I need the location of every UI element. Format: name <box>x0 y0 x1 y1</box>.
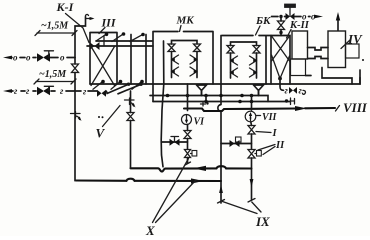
valve (bowtie) on wash pipe right section <box>97 90 106 97</box>
node dot C2 at x206 <box>204 100 208 104</box>
label IV with leader <box>341 32 363 49</box>
node: left inlet arrow pipe "г" (wash water) <box>3 89 107 93</box>
valve (hourglass) on x130.5 <box>127 113 134 121</box>
wire: К-II bottom outlet to г line <box>280 79 284 91</box>
valve (gate with T-handle) on inlet pipe о <box>37 51 54 62</box>
arrow end of top line <box>314 15 323 19</box>
apparatus БК outline <box>222 36 271 85</box>
node dot riser top 1 <box>127 83 130 86</box>
node dot riser top 2 <box>139 83 142 86</box>
wire: blowdown line hook end <box>303 90 306 94</box>
svg-text:VIII: VIII <box>343 100 368 115</box>
svg-text:III: III <box>101 16 117 30</box>
pump VI (circle with down arrow) <box>182 115 192 125</box>
wire: funnel stem БК to C1 <box>258 90 260 96</box>
node dot C1 at x221 <box>219 94 223 98</box>
valve (hourglass) МК right column <box>194 44 201 52</box>
wire: funnel stem МК to C1 <box>201 90 203 96</box>
sampling tap at C2 right end <box>285 98 295 105</box>
svg-text:IV: IV <box>347 32 363 47</box>
wire: vertical x75 to L2 <box>75 91 76 181</box>
svg-text:X: X <box>145 223 155 236</box>
filter vessel K-I (box with cross) <box>90 33 117 86</box>
valve (hourglass) БК left column <box>227 46 234 54</box>
valve (bowtie) on filter header <box>90 42 100 50</box>
wire: x251.5 between I and II <box>251 134 253 149</box>
wire: VIII line <box>184 108 335 111</box>
node dot К-II vertex <box>278 77 282 81</box>
valve (hourglass) on riser between pipes <box>72 64 79 73</box>
riser x131 <box>130 35 132 85</box>
label X with leaders <box>145 159 196 239</box>
wire: drain line L2 with right arrow <box>76 178 221 183</box>
tap on x130.5 (V) <box>125 98 136 108</box>
wire: vertical drain x187.5 upper <box>187 84 189 111</box>
svg-text:VI: VI <box>194 117 206 128</box>
air-relief switch with node dot (3) <box>130 33 145 42</box>
label К-II with leader <box>287 20 310 38</box>
wire: БК left column tube <box>230 53 232 78</box>
valve (hourglass) МК left column <box>168 44 175 52</box>
wire: БК inner bracket <box>231 42 257 46</box>
label IX with leaders <box>223 202 271 230</box>
drain switch with node dot (2) <box>111 80 122 90</box>
svg-text:БК: БК <box>255 15 271 27</box>
node dot C2 at x240 <box>238 100 242 104</box>
tap on x75 (V) <box>71 112 82 122</box>
wire: x187.5 between VI and valve <box>187 125 189 131</box>
label I with leader <box>256 128 278 139</box>
label II with two leaders <box>258 140 285 155</box>
svg-text:о: о <box>60 53 65 63</box>
node dot C1 at x206 <box>204 94 208 98</box>
air-relief switch with node dot (2) <box>112 32 125 41</box>
dimension line upper <box>35 31 77 36</box>
svg-text:IX: IX <box>255 214 270 229</box>
node dot above К-II <box>279 31 282 34</box>
wire: wash diagonal riser 1 <box>107 84 129 93</box>
svg-text:К-I: К-I <box>56 0 75 14</box>
wire: stub below drain valve with end tick <box>187 158 189 164</box>
spray nozzle БК right lower <box>250 68 258 77</box>
wire: filter header pipe <box>87 45 153 47</box>
wire: МК inner bracket <box>172 41 198 45</box>
svg-text:о: о <box>13 53 18 63</box>
svg-text:о: о <box>26 53 31 63</box>
label VII with dash leader <box>257 112 278 123</box>
valve (hourglass) БК right column <box>253 46 260 54</box>
valve with actuator (bowtie+box) on branch <box>230 137 242 147</box>
spray nozzle МК right lower <box>190 67 198 76</box>
wire: x251.5 below pump <box>250 122 253 126</box>
spray nozzle МК left lower <box>171 67 179 76</box>
valve (bowtie) on blowdown line <box>289 87 297 94</box>
label V with two leaders <box>96 106 121 141</box>
svg-text:V: V <box>96 126 106 141</box>
svg-text:МК: МК <box>176 15 195 27</box>
funnel drain under БК <box>254 85 264 96</box>
machine IV pedestal step <box>322 68 360 85</box>
wire: x187.5 between valves <box>187 139 189 150</box>
pump VII (circle with up arrow) <box>245 111 256 122</box>
apparatus МК (mechanical filter-column block) outline <box>153 32 213 102</box>
valve I (hourglass) <box>248 126 255 135</box>
wire: upper distribution header <box>96 40 152 42</box>
funnel drain under МК <box>197 85 207 96</box>
air-relief switch with node dot (1) <box>96 33 108 42</box>
riser x146 <box>145 35 147 85</box>
wire: drain line L1 with left arrow <box>131 166 252 172</box>
steam exhaust arrow above IV <box>336 12 340 31</box>
machine IV right small rectangle <box>346 44 360 58</box>
spray nozzle БК left upper <box>230 56 238 65</box>
wire: БК left edge long drain line <box>218 36 221 204</box>
wire: drain stub below II with arrow and end tick <box>248 158 255 202</box>
label МК with leader <box>176 15 195 32</box>
wire: branch to tee valve <box>161 141 187 143</box>
svg-text:~1,5М: ~1,5М <box>39 69 67 80</box>
machine IV left body rectangle <box>292 31 308 59</box>
svg-text:~1,5М: ~1,5М <box>41 21 69 32</box>
node dot C1 at x251.5 <box>250 94 254 98</box>
machine IV right body rectangle <box>328 31 346 68</box>
dash-dot speck 2 <box>102 116 104 118</box>
node: left inlet arrow pipe "o" (clarified water inlet) <box>3 56 75 60</box>
valve (hourglass) above К-II <box>278 21 285 30</box>
valve with actuator box (drain X1) <box>185 150 197 158</box>
speck dot right of IV <box>362 59 364 61</box>
wire: vertical x160.5 (МК drain) <box>161 41 164 167</box>
spray nozzle МК right upper <box>190 55 198 64</box>
machine IV coupling blocks <box>308 48 329 59</box>
wire: main bottom collector <box>90 78 360 85</box>
valve (bowtie with T-handle) on branch <box>170 137 180 146</box>
wire: collector C1 <box>150 96 268 102</box>
wire: МК left column tube <box>171 52 173 78</box>
spray nozzle БК left lower <box>230 68 238 77</box>
wire: riser from inlet pipe to air vent <box>75 17 86 58</box>
sampling tap at riser top <box>85 14 94 20</box>
wire: БК right column tube <box>256 53 258 78</box>
wire: riser from pipe o down to pipe г <box>74 58 76 92</box>
wire: pump VII suction from collectors <box>251 96 253 111</box>
label III with leader <box>99 16 117 34</box>
wire: collector C2 <box>153 101 290 103</box>
dimension line lower <box>34 79 76 84</box>
wire: wash diagonal riser 2 <box>118 84 141 94</box>
valve (gate with T-handle) on wash pipe <box>37 86 54 95</box>
wire: К-II top line with steam-out <box>272 16 318 18</box>
riser x104 <box>103 36 105 47</box>
label К-I with leader to filter inlet valve <box>56 0 90 43</box>
svg-text:II: II <box>275 140 285 151</box>
tick before VIII label <box>336 106 340 112</box>
svg-text:VII: VII <box>262 112 278 123</box>
wire: link C1-C2 at x206 <box>205 96 207 102</box>
svg-text:о: о <box>302 12 307 22</box>
svg-text:К-II: К-II <box>289 20 310 31</box>
node dot at C2 x251.5 <box>250 100 254 104</box>
drain switch with node dot (1) <box>93 80 105 90</box>
wire: drain stub x221 with up arrow and end tick <box>218 185 225 204</box>
machine IV lower small rectangle right <box>306 75 312 77</box>
wire: К-II inlet stub <box>280 17 282 36</box>
label БК with leader <box>255 15 271 35</box>
drain switch with node dot (3) <box>132 80 144 90</box>
spray nozzle МК left upper <box>171 55 179 64</box>
dash-dot speck 1 <box>98 116 100 118</box>
machine IV lower-left small rectangle <box>291 59 306 76</box>
node dot on К-II top line <box>279 15 282 18</box>
spray nozzle БК right upper <box>250 56 258 65</box>
valve II (hourglass with actuator box) <box>248 150 261 159</box>
node dot C1 at x167.5 <box>166 94 170 98</box>
node dot C1 at x242 <box>240 94 244 98</box>
sampling tap below C2 <box>201 102 206 107</box>
node dot C1 at x187.5 <box>186 94 190 98</box>
valve with handwheel on К-II top line <box>285 4 296 20</box>
wire: МК right column tube <box>196 52 198 78</box>
wire: vertical x130.5 wash drain <box>130 91 132 168</box>
valve (hourglass) below VI <box>184 131 191 139</box>
column К-II (box with cross) <box>271 36 290 85</box>
wire: branch from x221 to pump line <box>221 143 252 145</box>
arrow on VIII line <box>295 106 307 111</box>
